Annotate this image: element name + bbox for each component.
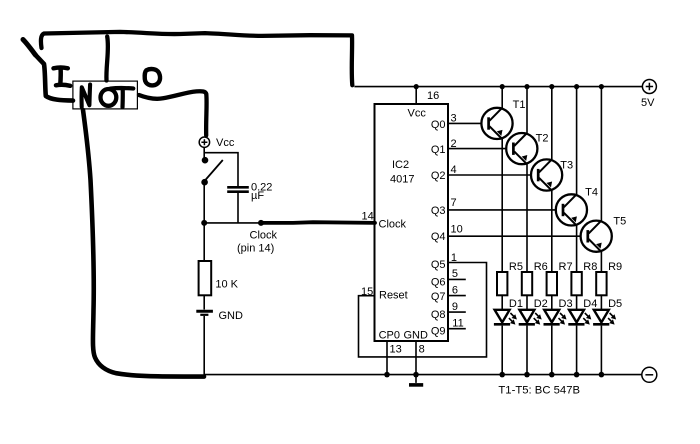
svg-text:GND: GND [219, 310, 244, 322]
svg-text:Q5: Q5 [431, 259, 446, 271]
svg-text:T3: T3 [560, 160, 573, 172]
svg-text:T4: T4 [585, 187, 598, 199]
svg-text:16: 16 [427, 90, 439, 102]
svg-text:Q3: Q3 [431, 205, 446, 217]
svg-text:5V: 5V [641, 97, 655, 109]
svg-text:4: 4 [451, 164, 457, 176]
svg-text:D2: D2 [534, 298, 548, 310]
svg-text:Clock: Clock [250, 230, 278, 242]
svg-text:Q9: Q9 [431, 325, 446, 337]
svg-text:Reset: Reset [379, 289, 408, 301]
svg-text:D5: D5 [608, 298, 622, 310]
svg-text:Q8: Q8 [431, 309, 446, 321]
svg-text:15: 15 [361, 286, 373, 298]
svg-text:D1: D1 [509, 298, 523, 310]
svg-text:IC2: IC2 [392, 159, 409, 171]
svg-text:9: 9 [452, 301, 458, 313]
svg-text:10: 10 [451, 224, 463, 236]
svg-text:13: 13 [390, 344, 402, 356]
svg-text:CP0: CP0 [379, 330, 400, 342]
svg-text:Q1: Q1 [431, 144, 446, 156]
svg-text:T1: T1 [513, 99, 526, 111]
svg-text:µF: µF [251, 190, 264, 202]
svg-text:11: 11 [452, 317, 463, 329]
svg-text:Clock: Clock [379, 219, 407, 231]
svg-text:R8: R8 [583, 261, 597, 273]
svg-text:D3: D3 [559, 298, 573, 310]
svg-text:Q0: Q0 [431, 119, 446, 131]
svg-text:7: 7 [451, 197, 457, 209]
svg-text:D4: D4 [583, 298, 597, 310]
svg-text:Q7: Q7 [431, 291, 446, 303]
svg-text:T1-T5: BC 547B: T1-T5: BC 547B [498, 385, 580, 397]
svg-text:3: 3 [451, 113, 457, 125]
svg-text:Vcc: Vcc [408, 107, 427, 119]
svg-text:GND: GND [404, 330, 429, 342]
svg-text:14: 14 [362, 211, 374, 223]
svg-text:Q2: Q2 [431, 170, 446, 182]
svg-text:5: 5 [452, 268, 458, 280]
svg-text:8: 8 [419, 344, 425, 356]
svg-text:(pin 14): (pin 14) [237, 243, 274, 255]
svg-text:Vcc: Vcc [216, 137, 235, 149]
svg-text:T2: T2 [536, 133, 549, 145]
svg-text:R7: R7 [559, 261, 573, 273]
svg-text:10 K: 10 K [215, 279, 238, 291]
svg-text:Q4: Q4 [431, 231, 446, 243]
svg-text:6: 6 [452, 285, 458, 297]
svg-text:R6: R6 [534, 261, 548, 273]
svg-text:4017: 4017 [390, 174, 414, 186]
svg-text:R5: R5 [509, 261, 523, 273]
svg-text:T5: T5 [613, 216, 626, 228]
svg-text:2: 2 [451, 138, 457, 150]
svg-text:1: 1 [451, 252, 457, 264]
svg-text:Q6: Q6 [431, 276, 446, 288]
svg-text:R9: R9 [608, 261, 622, 273]
